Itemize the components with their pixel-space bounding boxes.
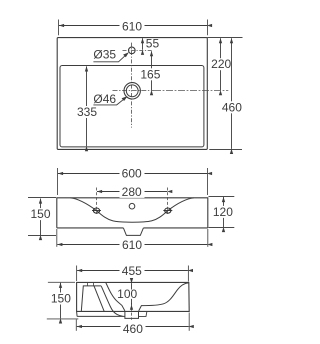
svg-text:335: 335 [77,105,97,119]
svg-text:55: 55 [146,37,160,51]
bottom right extension line [209,149,242,151]
bracket trapezoid [81,286,104,312]
dim 280 dashed extension lines [96,188,98,215]
drain centerline horizontal [113,90,155,92]
svg-text:165: 165 [140,67,160,81]
dim 600 extension lines [57,168,59,195]
svg-text:455: 455 [122,264,142,278]
svg-text:280: 280 [122,185,142,199]
dim 610 bottom extension lines [56,229,58,247]
drain outlet trapezoid [123,228,143,236]
drain fitting [125,311,139,318]
right fixing hole [163,208,172,213]
svg-text:600: 600 [122,166,142,180]
dim 600 line [58,173,207,175]
svg-text:610: 610 [122,238,142,252]
dim 150 left extension lines [28,197,56,199]
dim 455 extension lines [76,266,78,282]
bracket notch [88,283,94,286]
top view outer rim [57,38,207,150]
dim 55 double arrow [142,38,144,50]
svg-text:220: 220 [211,57,231,71]
label O46 leader [93,98,125,105]
svg-text:460: 460 [222,100,242,114]
dim 280 line [97,191,167,193]
dim 460 bottom extension lines [75,320,77,331]
dim 165 line [151,51,153,90]
drain hole outer [124,83,140,99]
overflow hole [129,203,135,209]
label O35 leader [93,54,127,62]
drain right underside step [139,312,147,317]
drain hole inner [126,85,138,97]
top right extension line (top edge) [207,37,242,39]
dim 335 line [86,66,88,146]
dim 150 line [40,199,42,236]
dim 120 right extension lines [209,196,235,198]
side bowl outer wall curve [101,286,122,316]
svg-text:460: 460 [123,322,143,336]
svg-text:Ø46: Ø46 [93,92,116,106]
vertical centerline [131,43,133,128]
dim 610 bottom line [57,244,207,246]
side bowl interior curve [106,282,189,311]
front view outline [57,198,208,228]
svg-text:150: 150 [51,292,71,306]
svg-text:150: 150 [30,207,50,221]
dim 460 line (right) [231,38,233,149]
dim 220 line [220,38,222,90]
dim 610 top line [59,25,207,27]
svg-text:100: 100 [117,287,137,301]
svg-text:Ø35: Ø35 [93,48,116,62]
dim 460 bottom line [77,326,189,328]
dim 120 line [223,197,225,227]
dim 150 side extension lines [48,281,75,283]
dim 150 side line [60,283,62,319]
front view bottom edge [57,227,208,229]
side left lower edge [76,311,79,316]
front apron curve [71,198,194,222]
dim 455 line [77,270,188,272]
top view inner basin rim [60,66,204,147]
side drain centerline [131,303,133,320]
svg-text:610: 610 [122,20,142,34]
svg-text:120: 120 [213,205,233,219]
dim 100 arrows [131,283,133,289]
dim 610 top extension lines [58,20,60,36]
underside line [77,315,125,317]
faucet hole [129,47,136,54]
faucet centerline horizontal [123,50,153,52]
side view outline [77,282,190,311]
left fixing hole [92,208,101,213]
